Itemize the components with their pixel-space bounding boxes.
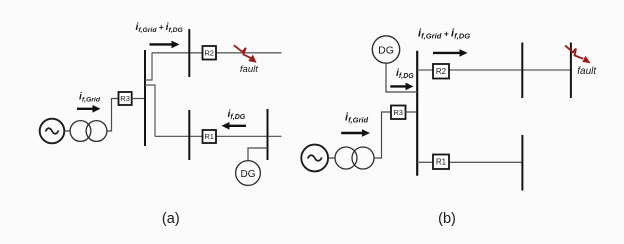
arrow i_f,Grid (b)	[341, 129, 370, 137]
bus B8 (b)	[521, 135, 523, 191]
breaker R2 (a)	[203, 46, 217, 60]
top feeder line (b)	[417, 69, 571, 71]
wire DG to bus B5 (b)	[386, 63, 417, 92]
wire DG to bus B4 (a)	[248, 148, 268, 160]
fault lightning arrow (b)	[565, 46, 591, 64]
fault lightning arrow (a)	[234, 45, 257, 63]
arrow i_f,DG (a)	[222, 122, 247, 130]
svg-text:R1: R1	[436, 158, 447, 167]
bus B6 (b)	[521, 43, 523, 99]
transformer T1 (a)	[70, 121, 107, 142]
svg-text:DG: DG	[378, 45, 394, 57]
transformer T2 (b)	[335, 147, 374, 169]
svg-text:R1: R1	[204, 132, 214, 141]
bus B3 (a)	[188, 110, 190, 160]
breaker R2 (b)	[433, 64, 449, 79]
svg-text:R2: R2	[436, 67, 447, 76]
wire bus B1 to top feeder (a)	[145, 53, 152, 80]
lower feeder line (a)	[155, 135, 282, 137]
breaker R3 (b)	[391, 106, 406, 120]
svg-text:R3: R3	[393, 108, 403, 117]
breaker R1 (b)	[433, 155, 449, 170]
svg-text:fault: fault	[240, 64, 258, 75]
wire transformer to R3 (a)	[107, 99, 118, 132]
svg-text:R2: R2	[204, 49, 214, 58]
bus B5 (b)	[416, 51, 418, 176]
arrow i_f,Grid (a)	[77, 105, 101, 113]
arrow i_f,Grid + i_f,DG (a)	[150, 41, 180, 49]
top feeder line (a)	[152, 52, 282, 54]
DG source DG1 (a)	[236, 161, 261, 186]
svg-text:fault: fault	[577, 66, 597, 77]
svg-text:(a): (a)	[162, 211, 180, 227]
lower feeder line (b)	[417, 161, 522, 163]
bus B1 (a)	[144, 50, 146, 146]
bus B7 (b)	[570, 43, 572, 99]
DG source DG2 (b)	[372, 36, 399, 63]
arrow i_f,Grid + i_f,DG (b)	[433, 49, 468, 57]
AC grid source G1 (a)	[40, 119, 65, 144]
wire source to transformer (b)	[328, 157, 335, 159]
AC grid source G2 (b)	[301, 145, 328, 172]
wire transformer to R3 (b)	[374, 112, 391, 158]
arrow i_f,DG (b)	[390, 83, 413, 91]
wire bus B1 to lower feeder (a)	[145, 85, 155, 136]
svg-text:DG: DG	[241, 169, 256, 180]
wire source to transformer (a)	[64, 130, 70, 132]
svg-text:(b): (b)	[438, 211, 456, 227]
svg-text:R3: R3	[120, 94, 130, 103]
bus B4 (a)	[267, 109, 269, 160]
breaker R1 (a)	[203, 130, 217, 143]
wire R3 to bus B1 (a)	[132, 98, 145, 100]
breaker R3 (a)	[119, 92, 132, 105]
bus B2 (a)	[188, 29, 190, 77]
wire R3 to bus B5 (b)	[406, 111, 418, 113]
